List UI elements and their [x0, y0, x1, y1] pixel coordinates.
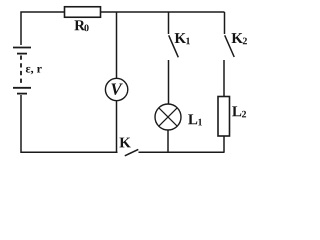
wire top rail right of R0	[100, 11, 225, 13]
label L1	[188, 114, 202, 125]
label K	[119, 138, 130, 148]
label epsilon,r	[26, 67, 42, 75]
switch K blade	[125, 149, 139, 155]
label K1	[175, 33, 190, 44]
lamp L1	[155, 104, 181, 130]
switch K1	[169, 12, 179, 57]
lamp L1 branch wire lower	[167, 130, 169, 152]
wire top-left corner	[21, 12, 65, 45]
switch K2	[225, 12, 235, 57]
resistor L2 branch wire upper	[223, 60, 225, 96]
lamp L1 branch wire upper	[168, 60, 170, 105]
wire bottom rail right of switch K	[139, 151, 225, 153]
battery ε,r	[13, 48, 31, 94]
resistor L2	[218, 97, 230, 137]
voltmeter V	[105, 78, 127, 100]
voltmeter U (V) branch wires	[116, 12, 118, 152]
label R0	[74, 20, 88, 31]
label V	[111, 83, 122, 94]
wire bottom-left and bottom rail to switch K	[21, 95, 118, 152]
label L2	[232, 106, 246, 117]
label K2	[232, 33, 247, 44]
resistor L2 branch wire lower	[223, 136, 225, 152]
resistor R0	[65, 7, 101, 18]
